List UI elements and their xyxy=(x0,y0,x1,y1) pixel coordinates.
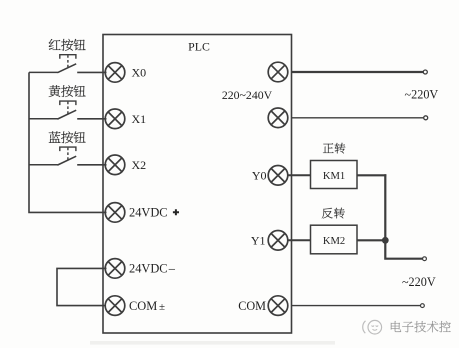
svg-text:24VDC–: 24VDC– xyxy=(129,262,176,276)
junction dot xyxy=(382,237,389,244)
pushbutton SB3 blue actuator xyxy=(60,147,76,160)
terminal dot COM xyxy=(421,304,425,308)
wire Y0 to KM1 xyxy=(288,174,311,176)
svg-text:COM: COM xyxy=(238,299,266,313)
label SB3 blue xyxy=(49,131,86,143)
svg-text:220~240V: 220~240V xyxy=(222,88,273,102)
pushbutton SB2 yellow actuator xyxy=(60,101,76,114)
terminal 24VDC+ xyxy=(105,203,125,223)
terminal X2 xyxy=(105,155,125,175)
terminal Y0 xyxy=(268,166,288,186)
terminal X0 xyxy=(105,63,125,83)
terminal dot AC L xyxy=(423,70,427,74)
terminal dot KM return xyxy=(423,257,427,261)
svg-text:~220V: ~220V xyxy=(405,88,439,102)
terminal dot AC N xyxy=(424,116,428,120)
svg-text:X2: X2 xyxy=(132,158,147,172)
pushbutton SB1 red actuator xyxy=(60,55,76,67)
wire bus branch to button SB2 xyxy=(29,118,58,120)
wire left input bus to 24VDC+ xyxy=(29,72,107,212)
terminal N power xyxy=(268,108,288,128)
wire COM to AC source xyxy=(292,305,421,307)
pushbutton SB3 blue contact blade xyxy=(57,156,76,165)
wire N to AC source xyxy=(292,117,424,119)
svg-text:Y0: Y0 xyxy=(252,169,267,183)
label SB1 red xyxy=(49,39,86,51)
contactor coil KM1 xyxy=(311,161,358,189)
wire 24VDC- to COM+- jumper xyxy=(57,268,107,305)
label SB2 yellow xyxy=(49,85,86,97)
terminal L power xyxy=(268,62,288,82)
svg-text:KM1: KM1 xyxy=(323,171,345,182)
svg-text:X0: X0 xyxy=(132,66,147,80)
pushbutton SB1 red contact blade xyxy=(57,64,76,73)
label reverse xyxy=(322,208,345,219)
contactor coil KM2 xyxy=(311,225,358,254)
wire bus branch to button SB3 xyxy=(29,164,58,166)
wire SB2 to X1 xyxy=(77,118,106,120)
svg-text:PLC: PLC xyxy=(188,40,210,54)
terminal X1 xyxy=(105,109,125,129)
svg-text:COM±: COM± xyxy=(129,299,165,313)
terminal 24VDC- xyxy=(105,259,125,279)
terminal COM output xyxy=(268,296,288,316)
svg-text:~220V: ~220V xyxy=(402,275,436,289)
PLC enclosure box xyxy=(103,35,292,334)
pushbutton SB2 yellow contact blade xyxy=(57,110,76,119)
svg-text:Y1: Y1 xyxy=(251,234,266,248)
label forward xyxy=(323,143,345,154)
svg-text:X1: X1 xyxy=(132,112,147,126)
faint ghost band xyxy=(90,341,335,345)
terminal COM+- xyxy=(105,296,125,316)
svg-text:KM2: KM2 xyxy=(323,236,345,247)
wire SB1 to X0 xyxy=(77,71,106,73)
watermark logo xyxy=(363,320,382,334)
wire Y1 to KM2 xyxy=(288,239,311,241)
wire L to AC source xyxy=(292,71,424,73)
wire KM common return xyxy=(385,174,422,258)
wire SB3 to X2 xyxy=(77,164,106,166)
wire bus to button SB1 xyxy=(29,71,58,73)
svg-text:24VDC: 24VDC xyxy=(129,206,168,220)
wire KM2 to AC bus xyxy=(357,239,386,241)
wire KM1 to AC bus xyxy=(357,174,386,176)
plus sign of 24VDC+ xyxy=(173,209,179,215)
watermark text xyxy=(391,321,451,332)
terminal Y1 xyxy=(268,231,288,251)
